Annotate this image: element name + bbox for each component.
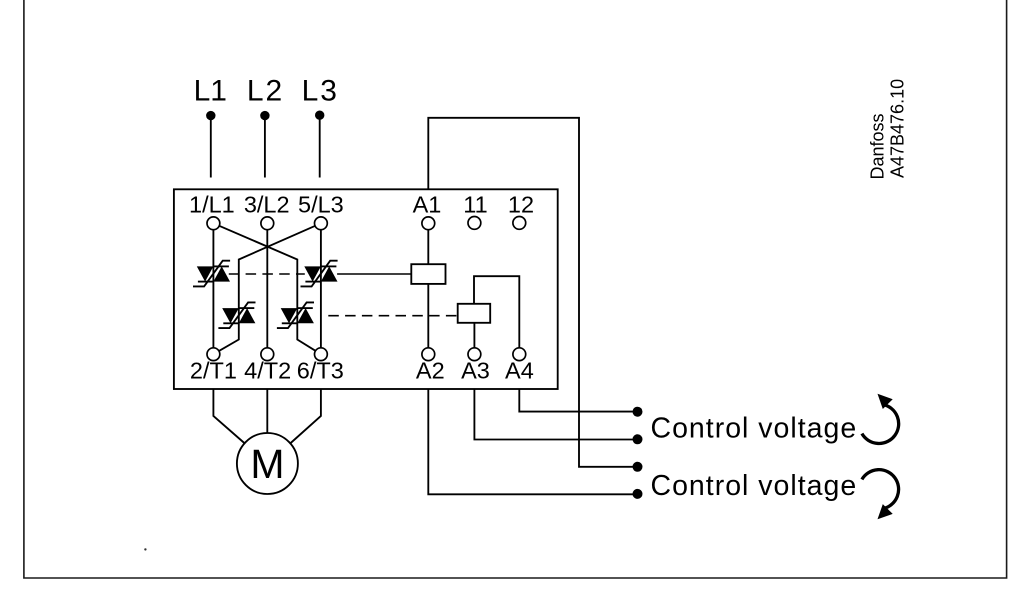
svg-text:Control voltage: Control voltage bbox=[651, 412, 858, 444]
terminal circle 3/L2 bbox=[261, 217, 274, 230]
thyristor pair V4 (reverse branch right lower) bbox=[277, 302, 314, 328]
svg-text:L1: L1 bbox=[194, 74, 227, 107]
rotation arrow counter-clockwise bbox=[862, 394, 899, 444]
wire phase 2 vertical (3/L2 to 4/T2) bbox=[266, 223, 268, 354]
wire external loop A1 to control voltage 2 bbox=[428, 118, 633, 467]
soft starter enclosure box bbox=[174, 189, 558, 389]
wire A4 to control voltage 1 line 1 bbox=[519, 389, 633, 412]
node control dot 4 bbox=[633, 489, 643, 499]
terminal circle 11 bbox=[468, 217, 481, 230]
svg-text:L2: L2 bbox=[247, 74, 284, 107]
svg-text:Control voltage: Control voltage bbox=[651, 470, 858, 502]
wire L2 supply stub bbox=[264, 116, 266, 178]
terminal circle 6/T3 bbox=[315, 348, 328, 361]
thyristor pair V2 (phase L3 upper) bbox=[301, 261, 338, 287]
terminal circle A2 bbox=[422, 348, 435, 361]
svg-text:A4: A4 bbox=[505, 358, 534, 384]
terminal circle A4 bbox=[513, 348, 526, 361]
terminal circle A1 bbox=[422, 217, 435, 230]
svg-text:A1: A1 bbox=[413, 192, 442, 218]
node control dot 1 bbox=[633, 407, 643, 417]
wire A3 to control voltage 1 line 2 bbox=[474, 389, 633, 440]
wire A1 to A2 through relay coil bbox=[427, 223, 429, 354]
node L1 dot bbox=[206, 111, 215, 120]
terminal circle A3 bbox=[468, 348, 481, 361]
thyristor pair V3 (reverse branch left lower) bbox=[218, 302, 255, 328]
rotation arrow clockwise bbox=[862, 470, 899, 520]
svg-text:12: 12 bbox=[508, 192, 534, 218]
wire phase 3 vertical (5/L3 to 6/T3) bbox=[320, 223, 322, 354]
node L2 dot bbox=[260, 111, 269, 120]
terminal circle 2/T1 bbox=[207, 348, 220, 361]
wire coil K2 top to A4 bbox=[474, 276, 519, 348]
wire crossover from 1/L1 to right branch bbox=[213, 223, 321, 354]
wire phase 1 vertical (1/L1 to 2/T1) bbox=[212, 223, 214, 354]
gate control solid link upper triac to coil K1 bbox=[337, 273, 411, 275]
svg-text:3/L2: 3/L2 bbox=[244, 192, 290, 218]
svg-text:L3: L3 bbox=[302, 74, 339, 107]
wire A2 to control voltage 2 line 2 bbox=[428, 389, 633, 494]
wire motor lead T1 bbox=[213, 389, 246, 445]
terminal circle 1/L1 bbox=[207, 217, 220, 230]
thyristor pair V1 (phase L1 upper) bbox=[193, 261, 230, 287]
stray dot mark bbox=[144, 548, 146, 550]
motor M1 bbox=[237, 433, 298, 494]
terminal circle 5/L3 bbox=[315, 217, 328, 230]
relay coil K1 (between A1 and A2) bbox=[411, 264, 445, 284]
svg-text:5/L3: 5/L3 bbox=[298, 192, 344, 218]
gate control dashed link upper bbox=[229, 273, 305, 275]
svg-text:6/T3: 6/T3 bbox=[297, 358, 344, 384]
terminal circle 12 bbox=[513, 217, 526, 230]
wire motor lead T3 bbox=[289, 389, 321, 445]
wire L1 supply stub bbox=[210, 116, 212, 178]
node control dot 2 bbox=[633, 434, 643, 444]
relay coil K2 (between A3 and A4) bbox=[458, 304, 491, 323]
gate control dashed link lower triacs to coil K2 bbox=[328, 315, 456, 317]
svg-text:M: M bbox=[250, 441, 284, 487]
svg-text:11: 11 bbox=[463, 192, 487, 218]
wire coil K2 bottom to A3 bbox=[473, 323, 475, 348]
svg-text:Danfoss: Danfoss bbox=[868, 113, 888, 179]
wire motor lead T2 bbox=[266, 389, 268, 435]
wire crossover from 5/L3 to left branch bbox=[213, 223, 321, 354]
svg-text:4/T2: 4/T2 bbox=[244, 358, 291, 384]
wire L3 supply stub bbox=[319, 116, 321, 178]
svg-text:2/T1: 2/T1 bbox=[190, 358, 237, 384]
terminal circle 4/T2 bbox=[261, 348, 274, 361]
svg-text:A47B476.10: A47B476.10 bbox=[888, 79, 908, 178]
svg-text:A2: A2 bbox=[416, 358, 445, 384]
svg-text:A3: A3 bbox=[461, 358, 490, 384]
node control dot 3 bbox=[633, 462, 643, 472]
node L3 dot bbox=[315, 111, 324, 120]
svg-text:1/L1: 1/L1 bbox=[189, 192, 235, 218]
